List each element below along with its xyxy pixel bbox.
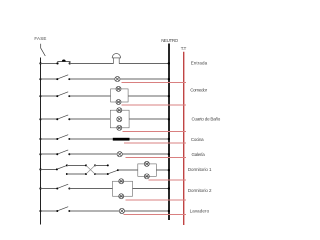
lamp E3 xyxy=(116,100,121,105)
lamp E9 xyxy=(144,174,149,179)
wire pushbutton to bell xyxy=(70,62,114,64)
node: phase junction row Entrada xyxy=(39,62,41,64)
node: neutral junction row hall lamp xyxy=(168,78,170,80)
two-way switch S6 xyxy=(56,164,68,175)
node: phase junction row Dormitorio 2 xyxy=(39,187,41,189)
lamp E7 xyxy=(117,152,122,157)
wire lamp E12 to neutral xyxy=(125,210,169,212)
wire fixture box Cuarto de Bano to neutral xyxy=(129,118,169,120)
switch S4 xyxy=(56,135,70,140)
node: phase junction row Lavadero xyxy=(39,210,41,212)
switch S8 xyxy=(56,184,70,189)
node crossover top left xyxy=(85,164,87,166)
node: neutral junction row Comedor xyxy=(168,95,170,97)
node: neutral junction row Dormitorio 2 xyxy=(168,187,170,189)
lamp E8 xyxy=(144,161,149,166)
lamp E6 xyxy=(117,125,122,130)
node top traveller end xyxy=(107,164,109,166)
switch S1 xyxy=(56,75,70,80)
node: neutral junction row Dormitorio 1 xyxy=(168,169,170,171)
wire switch S2 to fixture box Comedor xyxy=(69,95,110,97)
wire switch S3 to fixture box Cuarto de Bano xyxy=(69,118,110,120)
node: neutral junction row Cocina xyxy=(168,138,170,140)
wire phase to switch S4 xyxy=(41,138,58,140)
wire phase to switch S8 xyxy=(41,188,58,190)
earth wire Dormitorio 1 to T.T xyxy=(148,179,186,181)
node: phase junction row Comedor xyxy=(39,95,41,97)
wire switch S9 to lamp E12 xyxy=(69,210,119,212)
heater bar (Cocina load) xyxy=(113,138,130,141)
fixture box Dormitorio 1 xyxy=(138,164,157,176)
svg-text:Cuarto de Baño: Cuarto de Baño xyxy=(192,116,221,121)
wire phase to pushbutton xyxy=(41,62,58,64)
wire heater bar to neutral xyxy=(130,138,169,140)
switch S3 xyxy=(56,115,70,120)
node: phase junction row hall lamp xyxy=(39,78,41,80)
svg-text:Entrada: Entrada xyxy=(191,61,208,66)
phase bus (FASE vertical) xyxy=(40,57,42,224)
node: phase junction row Cocina xyxy=(39,138,41,140)
wire bottom traveller right xyxy=(95,173,108,175)
wire switch S8 to fixture box Dormitorio 2 xyxy=(69,188,112,190)
pushbutton (doorbell switch) xyxy=(56,60,70,65)
wire fixture box Dormitorio 2 to neutral xyxy=(133,188,169,190)
lamp E10 xyxy=(119,179,124,184)
wire top traveller right xyxy=(95,164,108,166)
wire fixture box Comedor to neutral xyxy=(128,95,169,97)
switch S2 xyxy=(56,92,70,97)
wire phase to switch S9 xyxy=(41,210,58,212)
switch S9 xyxy=(56,207,70,212)
node bottom traveller end xyxy=(107,173,109,175)
wire switch S5 to lamp E7 xyxy=(69,153,117,155)
wire switch S1 to lamp E1 xyxy=(69,78,114,80)
lamp E11 xyxy=(119,194,124,199)
earth wire lamp E1 to T.T xyxy=(122,81,187,83)
node: neutral junction row Galeria xyxy=(168,153,170,155)
wire fixture box Dormitorio 1 to neutral xyxy=(156,169,169,171)
earth bus (T.T red vertical) xyxy=(183,52,185,225)
two-way switch S7 xyxy=(108,169,119,174)
svg-text:Comedor: Comedor xyxy=(190,88,207,93)
wire phase to switch S3 xyxy=(41,118,58,120)
fixture box Cuarto de Bano xyxy=(110,110,129,128)
wire phase to switch S5 xyxy=(41,153,58,155)
svg-text:Galería: Galería xyxy=(192,152,206,157)
earth wire Cocina to T.T xyxy=(124,142,186,144)
lamp E4 xyxy=(117,108,122,113)
wire phase to two-way switch S6 xyxy=(41,168,57,170)
earth wire Cuarto de Bano to T.T xyxy=(122,131,186,133)
lamp E5 xyxy=(117,117,122,122)
bell (timbre) xyxy=(112,53,121,63)
node: phase junction row Cuarto de Bano xyxy=(39,118,41,120)
node: neutral junction row Entrada xyxy=(168,62,170,64)
node crossover bottom left xyxy=(85,173,87,175)
earth wire Lavadero to T.T xyxy=(123,214,186,216)
wire phase to switch S1 xyxy=(41,78,58,80)
wire lamp E7 to neutral xyxy=(122,153,169,155)
svg-text:T.T: T.T xyxy=(181,46,187,51)
lamp E12 xyxy=(119,208,124,213)
neutral bus (NEUTRO vertical) xyxy=(168,44,170,220)
node: phase junction row Dormitorio 1 xyxy=(39,168,41,170)
fixture box Comedor xyxy=(111,89,129,102)
wire phase to switch S2 xyxy=(41,95,58,97)
earth wire Galeria to T.T xyxy=(125,157,186,159)
node: phase junction row Galeria xyxy=(39,153,41,155)
svg-text:Lavadero: Lavadero xyxy=(190,209,210,214)
wire bottom traveller left xyxy=(67,173,86,175)
lamp E1 xyxy=(115,77,120,82)
svg-text:FASE: FASE xyxy=(34,36,46,41)
wire lamp E1 to neutral xyxy=(120,78,169,80)
leader line from FASE label xyxy=(41,44,46,56)
fixture box Dormitorio 2 xyxy=(113,181,133,196)
node: neutral junction row Cuarto de Bano xyxy=(168,118,170,120)
earth wire Dormitorio 2 to T.T xyxy=(125,199,186,201)
svg-text:Dormitorio 1: Dormitorio 1 xyxy=(188,167,212,172)
lamp E2 xyxy=(116,86,121,91)
node: neutral junction row Lavadero xyxy=(168,210,170,212)
node crossover bottom right xyxy=(94,173,96,175)
node crossover top right xyxy=(94,164,96,166)
svg-text:Dormitorio 2: Dormitorio 2 xyxy=(188,188,212,193)
wire switch S7 to fixture box Dormitorio 1 xyxy=(118,169,138,171)
earth wire Comedor to T.T xyxy=(122,104,187,106)
crossover wire X (intermediate switch) xyxy=(86,165,95,174)
wire bell to neutral xyxy=(119,62,169,64)
wire switch S4 to heater bar xyxy=(69,138,112,140)
svg-text:Cocina: Cocina xyxy=(191,137,204,142)
wire top traveller left xyxy=(67,164,86,166)
switch S5 xyxy=(56,150,70,155)
svg-text:NEUTRO: NEUTRO xyxy=(161,38,178,43)
